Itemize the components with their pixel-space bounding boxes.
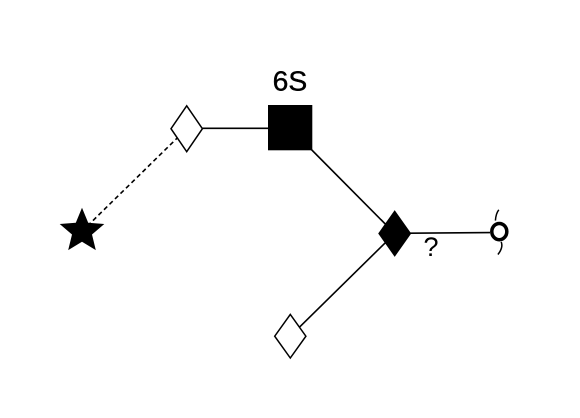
svg-text:6S: 6S [273, 66, 308, 97]
svg-text:?: ? [423, 232, 438, 262]
